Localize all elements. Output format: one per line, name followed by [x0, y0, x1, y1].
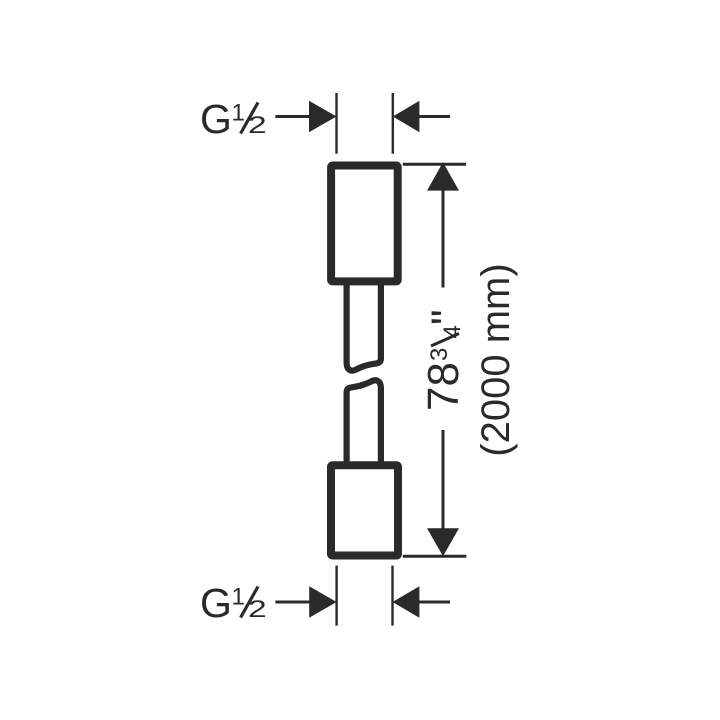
label G1/2 top: fraction slash [241, 103, 258, 134]
svg-text:(2000 mm): (2000 mm) [474, 263, 518, 456]
bottom dimension: right leader line [417, 601, 450, 604]
length dimension: bottom extension line [403, 555, 467, 558]
top dimension: left extension tick [335, 93, 337, 154]
top dimension: left arrowhead pointing right [309, 101, 337, 132]
svg-text:G: G [200, 96, 232, 142]
svg-text:1: 1 [232, 584, 245, 611]
bottom dimension: left leader line [275, 601, 312, 604]
length dimension: upper dimension line segment [442, 189, 445, 288]
length dimension: lower dimension line segment [442, 430, 445, 530]
lower hose segment with break squiggle [347, 380, 381, 465]
top dimension: right extension tick [392, 93, 394, 154]
length dimension: down arrowhead [427, 528, 459, 556]
svg-text:G: G [200, 580, 232, 626]
dimension value 78 3/4 inch (rotated) [419, 309, 472, 411]
bottom dimension: left arrowhead pointing right [309, 586, 336, 617]
svg-text:2: 2 [248, 112, 267, 138]
top dimension: left leader line [275, 115, 312, 118]
bottom dimension: left extension tick [335, 566, 337, 626]
top dimension: right leader line [417, 115, 450, 118]
bottom dimension: right extension tick [391, 566, 393, 626]
bottom dimension: right arrowhead pointing left [393, 586, 420, 617]
dimension value (2000 mm) (rotated) [474, 263, 518, 456]
length dimension: top extension line [403, 163, 466, 166]
svg-text:": " [423, 309, 472, 325]
svg-text:78: 78 [419, 362, 468, 411]
upper hose segment with break squiggle [347, 281, 381, 371]
bottom hose connector nut [331, 465, 398, 555]
fraction slash [431, 334, 459, 347]
label G1/2 bottom: fraction slash [241, 587, 258, 618]
svg-text:2: 2 [248, 596, 267, 622]
svg-text:4: 4 [439, 325, 466, 338]
top hose connector nut [331, 166, 398, 282]
svg-text:3: 3 [426, 348, 453, 361]
top dimension: right arrowhead pointing left [393, 101, 420, 132]
length dimension: up arrowhead [427, 162, 459, 190]
svg-text:1: 1 [232, 100, 245, 127]
